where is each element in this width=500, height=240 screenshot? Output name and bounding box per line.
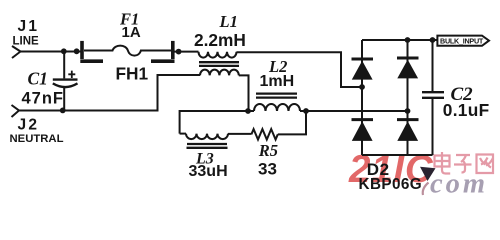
svg-text:C1: C1 [28,69,48,89]
svg-text:R5: R5 [258,141,278,160]
svg-text:0.1uF: 0.1uF [443,100,490,120]
svg-text:33uH: 33uH [189,163,228,180]
svg-text:FH1: FH1 [116,63,149,83]
svg-text:L1: L1 [219,12,238,31]
svg-text:NEUTRAL: NEUTRAL [10,133,64,145]
svg-text:J1: J1 [18,18,40,35]
svg-text:1mH: 1mH [260,73,295,90]
svg-text:com: com [430,169,488,198]
svg-text:33: 33 [258,159,277,178]
svg-text:J2: J2 [18,117,40,134]
svg-text:LINE: LINE [13,36,40,48]
svg-text:2.2mH: 2.2mH [194,30,246,50]
svg-text:KBP06G: KBP06G [359,176,423,193]
svg-text:1A: 1A [122,24,141,41]
svg-text:BULK_INPUT: BULK_INPUT [440,36,484,45]
svg-text:47nF: 47nF [22,90,65,108]
